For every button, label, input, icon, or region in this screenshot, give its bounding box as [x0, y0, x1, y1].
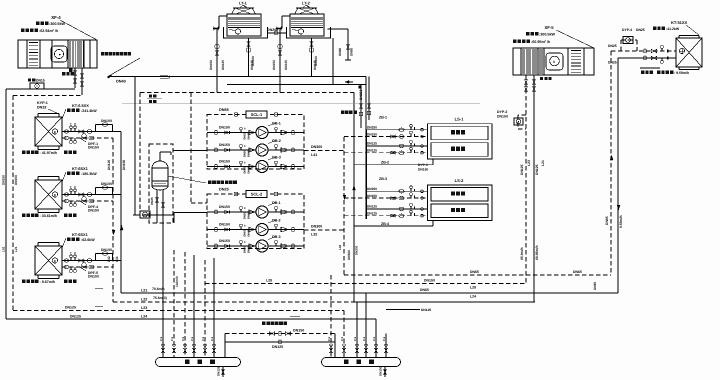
svg-text:DN150: DN150 — [418, 168, 428, 172]
pump DB-1 — [256, 206, 268, 218]
cooling tower LT-2 body with fill — [290, 14, 324, 36]
svg-text:E: E — [54, 259, 56, 263]
svg-text:DN40: DN40 — [248, 246, 251, 253]
svg-text:DN150: DN150 — [379, 366, 383, 376]
collector drain pipe — [222, 367, 224, 378]
svg-text:J: J — [168, 74, 170, 79]
wire short branch DN125 to distributor drop — [386, 309, 420, 311]
svg-text:DN150: DN150 — [219, 126, 230, 130]
svg-text:DN15: DN15 — [36, 79, 45, 83]
vertical dashed chilled return x=344 — [343, 137, 345, 275]
svg-text:DN32: DN32 — [37, 106, 46, 110]
svg-text:P: P — [74, 185, 76, 189]
backwash risers to headers — [224, 334, 226, 358]
pump GB-1 — [256, 127, 268, 139]
pump row GB-2 — [207, 149, 256, 151]
SCL-1 box — [246, 111, 267, 118]
label to air-handling pipe chase with leader arrow — [101, 52, 104, 55]
riser far right supply solid — [617, 58, 619, 293]
svg-text:E: E — [54, 193, 56, 197]
svg-text:DN65: DN65 — [219, 108, 229, 112]
label chilled water flow XF-5 — [513, 40, 517, 44]
svg-text::300.5kW: :300.5kW — [49, 22, 66, 26]
label chilled water flow XF-4 — [21, 29, 25, 33]
wire cooling water supply left edge (solid) — [5, 89, 7, 319]
svg-text:DN50: DN50 — [244, 212, 247, 219]
svg-text:110m/h: 110m/h — [175, 276, 179, 287]
svg-text:DN40: DN40 — [338, 48, 342, 56]
svg-text:DB-1: DB-1 — [272, 201, 281, 205]
svg-text:YS: YS — [82, 194, 86, 197]
svg-text::62.94m: :62.94m — [39, 29, 53, 33]
chiller CH2 bottom flange — [38, 212, 59, 214]
pump GB-3 — [256, 161, 268, 173]
wire dashed from return main down to tank — [139, 93, 141, 213]
svg-text:GB-3: GB-3 — [272, 156, 281, 160]
wire output SCL-1 dashed DN300 — [304, 150, 344, 152]
chiller CH2 return pipe dashed — [62, 200, 113, 202]
pump DB-2 — [256, 224, 268, 236]
bypass line with valves and SCL-2 — [234, 192, 238, 196]
riser turns at bottom right — [525, 96, 527, 284]
svg-text:DN125: DN125 — [520, 164, 524, 175]
svg-text:P-6: P-6 — [202, 336, 205, 341]
AHU XF-4 louver section — [29, 42, 38, 44]
LS-2 connection row 3 DN125 — [366, 208, 428, 210]
svg-text:: 8.67m/h: : 8.67m/h — [40, 280, 56, 284]
svg-text:LT-1: LT-1 — [239, 1, 248, 6]
svg-text:DN65: DN65 — [593, 282, 597, 290]
tower LT-1 supply drop from basin — [248, 38, 250, 77]
svg-text:P-6: P-6 — [383, 336, 386, 341]
svg-text:YS: YS — [82, 260, 86, 263]
cooling tower LT-1 fan deck — [232, 8, 256, 14]
LS-1 bottom connection pipe to riser — [432, 159, 434, 165]
svg-text:DN125: DN125 — [367, 149, 377, 153]
tank leader to auto air vent label — [168, 176, 206, 183]
wire bottom main yE=310.5 dashed from left edge — [13, 310, 344, 312]
svg-text:65.9m/h: 65.9m/h — [520, 247, 524, 260]
svg-text:DN150: DN150 — [293, 329, 304, 333]
AHU XF-5 coil sections — [522, 49, 524, 74]
svg-text:60.95m/h: 60.95m/h — [535, 245, 539, 260]
svg-text:P: P — [74, 122, 76, 126]
AHU XF-5 louvers — [571, 50, 581, 52]
svg-text:KT-6SX1: KT-6SX1 — [72, 166, 89, 171]
svg-text:L31: L31 — [115, 256, 119, 262]
svg-text:P: P — [74, 251, 76, 255]
label chilled water flow CH3 — [22, 280, 26, 284]
svg-text:P-6: P-6 — [341, 336, 344, 341]
svg-text:KT-51XX: KT-51XX — [671, 20, 688, 25]
wire DN200 between tower basins — [268, 32, 287, 34]
chiller CH3 supply pipe with gauges and valves — [62, 260, 121, 262]
backwash upper pipe dashed with valves DN150 — [225, 333, 335, 335]
riser from XF-5 return (dashed) — [525, 96, 527, 283]
svg-text:DN125: DN125 — [535, 164, 539, 175]
wire tank to pump group 1 inlet — [173, 150, 207, 152]
svg-text:DN40: DN40 — [116, 80, 126, 84]
cooling tower LT-2 inlet piping — [282, 15, 290, 17]
svg-text:DN40: DN40 — [248, 150, 251, 157]
svg-text:DN125: DN125 — [284, 60, 288, 70]
riser arrows — [112, 230, 115, 235]
LS-1 condenser inner box — [431, 126, 488, 140]
svg-text:P-6: P-6 — [328, 336, 331, 341]
svg-text:DN100: DN100 — [251, 56, 255, 66]
svg-text:DN150: DN150 — [209, 60, 213, 70]
svg-text:DYP-2: DYP-2 — [497, 110, 507, 114]
svg-text::300.5kW: :300.5kW — [539, 33, 556, 37]
LS-2 bottom connection pipe to riser — [432, 221, 434, 227]
svg-text:L21: L21 — [141, 289, 147, 293]
distributor drop pipes with valves — [330, 275, 332, 358]
wire cooling water return left edge (dashed) — [12, 96, 14, 311]
chiller CH3 top flange — [38, 242, 59, 244]
svg-text:T: T — [70, 122, 72, 126]
svg-text:DN150: DN150 — [2, 175, 6, 185]
svg-text:: 41.97m/h: : 41.97m/h — [40, 151, 58, 155]
pump row GB-1 — [207, 132, 256, 134]
svg-text:DN150: DN150 — [367, 132, 377, 136]
wire inlets to pump group 2 — [191, 202, 207, 204]
SCL-2 box — [246, 191, 267, 198]
vertical solid x=354 — [353, 120, 355, 302]
tank bottom pipes and valves — [156, 190, 158, 215]
label auto air vent device — [208, 181, 212, 185]
cooling tower LT-1 float valve — [235, 29, 240, 34]
bypass line with valves and SCL-1 — [234, 113, 238, 117]
label backwash connection pipe — [262, 322, 266, 326]
svg-text:DN65: DN65 — [573, 270, 582, 274]
svg-text:P-6: P-6 — [191, 336, 194, 341]
pump group SCL-2 enclosure dashed box — [207, 194, 304, 249]
svg-text:DN50: DN50 — [244, 246, 247, 253]
distributor header vessel — [322, 358, 401, 367]
air handling unit XF-4 casing — [18, 40, 97, 68]
svg-text:ZB-1: ZB-1 — [379, 116, 387, 120]
chiller unit CH3 casing — [35, 246, 62, 275]
svg-text:: 9.59m/h: : 9.59m/h — [674, 71, 689, 75]
svg-text:ZB-3: ZB-3 — [379, 177, 387, 181]
wire dashed from tower return down to pump group 2 — [190, 93, 192, 204]
cooling tower LT-2 fan deck — [295, 8, 319, 14]
wire bottom main yF=319 solid from left edge — [6, 318, 376, 320]
svg-text:DN125: DN125 — [107, 160, 111, 170]
svg-text:T: T — [70, 185, 72, 189]
svg-text:DN150: DN150 — [219, 223, 230, 227]
svg-text:DN125: DN125 — [217, 366, 221, 376]
svg-text:DN150: DN150 — [367, 194, 377, 198]
svg-text:LS-1: LS-1 — [455, 117, 464, 122]
cooling tower LT-2 basin — [287, 27, 331, 38]
jog connectors for LS rows — [343, 138, 345, 157]
LS-2 connection row 1 DN250 — [366, 190, 428, 192]
pump DB-3 — [256, 240, 268, 252]
svg-text:L32: L32 — [311, 233, 317, 237]
svg-text:DN25: DN25 — [608, 44, 617, 48]
AHU XF-4 coil sections — [69, 41, 71, 67]
svg-text:DN300: DN300 — [311, 145, 322, 149]
svg-text:DN150: DN150 — [219, 160, 230, 164]
wire bottom main yD=302 dashed — [113, 301, 354, 303]
chiller CH2 supply pipe with gauges and valves — [62, 194, 121, 196]
label chilled water XF-4 — [62, 72, 65, 75]
label chilled water flow CH1 — [22, 151, 26, 155]
tower LT-2 return riser — [279, 29, 281, 93]
svg-text:L21: L21 — [14, 246, 18, 252]
expansion tank enclosure dashed box — [149, 144, 173, 223]
svg-text:DN250: DN250 — [367, 187, 377, 191]
svg-text:P-6: P-6 — [182, 336, 185, 341]
svg-text::62.6kW: :62.6kW — [81, 238, 95, 242]
node main riser turn at x=366 — [365, 77, 367, 131]
backwash lower pipe solid with valve DN125 — [225, 341, 335, 343]
svg-text:L28: L28 — [266, 279, 272, 283]
LS-2 condenser inner box — [431, 188, 488, 202]
AHU XF-4 fan — [51, 46, 67, 62]
flow arrow on main — [345, 81, 353, 83]
LS-1 connection row 2 DN150 — [344, 136, 428, 138]
LS-1 evaporator inner box — [431, 143, 488, 157]
svg-text:: 33.61m/h: : 33.61m/h — [40, 214, 58, 218]
riser far right return dashed — [610, 51, 612, 275]
svg-text:DN300: DN300 — [347, 250, 351, 260]
heat exchanger unit LS-2 outer box — [428, 185, 493, 221]
svg-text:DN50: DN50 — [244, 132, 247, 139]
svg-text:DB-3: DB-3 — [272, 235, 281, 239]
svg-text:DN150: DN150 — [272, 60, 276, 70]
svg-text:GB-2: GB-2 — [272, 139, 281, 143]
svg-text:SCL-1: SCL-1 — [251, 112, 263, 117]
wire from main x=135 down to tank pump — [134, 77, 136, 216]
svg-text:DN125: DN125 — [367, 142, 377, 146]
svg-text:L24: L24 — [141, 315, 147, 319]
svg-text:DN50: DN50 — [244, 166, 247, 173]
pump row DB-3 — [207, 245, 256, 247]
wire cooling water return main (dashed) — [140, 92, 354, 94]
tank outlet down pipes — [156, 215, 158, 223]
svg-text:ZB-2: ZB-2 — [381, 161, 389, 165]
air handling unit XF-5 casing — [513, 48, 594, 75]
AHU XF-5 outlet pipes with valves — [525, 75, 527, 96]
makeup water meter DN15 — [28, 79, 31, 82]
svg-text:DN25: DN25 — [219, 188, 229, 192]
pump group SCL-1 enclosure dashed box — [207, 115, 304, 170]
KT-51 outlet piping solid — [618, 57, 676, 59]
chiller CH1 top flange — [38, 113, 59, 115]
svg-text::60.95m: :60.95m — [531, 40, 545, 44]
svg-text:DYP-3: DYP-3 — [418, 163, 428, 167]
svg-text:XF-4: XF-4 — [51, 15, 61, 20]
svg-text:KT-6.5XX: KT-6.5XX — [72, 103, 89, 108]
svg-text:L42: L42 — [338, 244, 342, 250]
svg-text:L41: L41 — [311, 153, 317, 157]
svg-text:DN150: DN150 — [88, 209, 99, 213]
label chilled water flow KT-51 — [641, 71, 644, 74]
svg-text:DN150: DN150 — [219, 205, 230, 209]
svg-text:DN40: DN40 — [248, 229, 251, 236]
svg-text:KT-6SX1: KT-6SX1 — [72, 232, 89, 237]
svg-text:DN40: DN40 — [248, 132, 251, 139]
LS-1 connection row 3 DN125 — [366, 145, 428, 147]
svg-text:DYP-4: DYP-4 — [622, 28, 632, 32]
svg-text:DN65: DN65 — [420, 288, 429, 292]
wire chilled water supply from XF-4 — [6, 88, 75, 90]
svg-text:DN200: DN200 — [267, 28, 278, 32]
svg-text::180.3kW: :180.3kW — [81, 172, 97, 176]
svg-text:DN50: DN50 — [244, 229, 247, 236]
svg-text:LT-2: LT-2 — [302, 1, 311, 6]
indoor/outdoor boundary line — [122, 103, 480, 105]
collector header vessel — [156, 358, 241, 367]
chiller CH1 return pipe dashed — [62, 137, 113, 139]
svg-text:DN125: DN125 — [367, 205, 377, 209]
svg-text:LS-2: LS-2 — [455, 178, 464, 183]
svg-text:L21: L21 — [541, 160, 545, 166]
tower LT-2 supply drop from basin — [311, 38, 313, 77]
svg-text:DN25: DN25 — [608, 61, 617, 65]
wire cooling water secondary main — [227, 84, 366, 86]
svg-text:DN40: DN40 — [248, 166, 251, 173]
expansion tank vessel — [152, 161, 168, 168]
svg-text:75.6m(3): 75.6m(3) — [153, 296, 167, 300]
KT-51 flanges — [679, 35, 699, 37]
svg-text:GB-1: GB-1 — [272, 122, 281, 126]
svg-text:L23: L23 — [527, 160, 531, 166]
svg-text:DN150: DN150 — [88, 146, 99, 150]
svg-text:P-6: P-6 — [160, 336, 163, 341]
wire bottom main yA=275 dashed to far-right riser — [344, 274, 611, 276]
svg-text:DN50: DN50 — [350, 48, 354, 56]
tower LT-1 return riser — [216, 29, 218, 93]
label cooling capacity XF-5 — [526, 32, 530, 36]
fan coil unit KT-51 casing — [676, 38, 702, 67]
svg-text:T: T — [70, 251, 72, 255]
chiller unit CH1 casing — [35, 117, 62, 146]
cooling tower LT-1 basin — [224, 27, 268, 38]
pump row DB-1 — [207, 211, 256, 213]
chiller CH1 bottom flange — [38, 149, 59, 151]
wire chilled water return from XF-4 (dashed) — [13, 95, 82, 97]
svg-text:DN150: DN150 — [88, 275, 99, 279]
flow arrows on LS verticals — [343, 195, 346, 200]
svg-text:DN25: DN25 — [636, 28, 645, 32]
cooling tower LT-1 body with fill — [227, 14, 261, 36]
svg-text::41.2kW: :41.2kW — [666, 27, 680, 31]
LS-1 connection row 4 DN125 — [344, 152, 428, 154]
AHU XF-4 outlet valves — [74, 68, 76, 88]
svg-text:DN125: DN125 — [65, 306, 76, 310]
wire output SCL-2 dashed DN300 — [304, 229, 344, 231]
pump GB-2 — [256, 144, 268, 156]
svg-text:DN250: DN250 — [367, 126, 377, 130]
cooling tower LT-2 float valve — [298, 29, 303, 34]
svg-text:DN150: DN150 — [424, 279, 435, 283]
svg-text:DN100: DN100 — [314, 56, 318, 66]
distributor drain pipe — [384, 367, 386, 378]
label cooling capacity CH1 — [67, 109, 71, 113]
cooling tower LT-1 inlet piping — [219, 15, 227, 17]
svg-text:P-6: P-6 — [211, 336, 214, 341]
svg-text:L32: L32 — [107, 256, 111, 262]
svg-text:KYP-1: KYP-1 — [37, 101, 48, 105]
svg-text:YS: YS — [82, 131, 86, 134]
svg-text:DN150: DN150 — [122, 160, 126, 170]
svg-text::241.4kW: :241.4kW — [81, 109, 97, 113]
LS-2 connection row 2 DN150 — [344, 197, 428, 199]
svg-text:DN150: DN150 — [219, 239, 230, 243]
label to garrison connection — [341, 111, 345, 115]
svg-text:SCL-2: SCL-2 — [251, 192, 263, 197]
svg-text:P-6: P-6 — [373, 336, 376, 341]
svg-text:DN150: DN150 — [497, 115, 508, 119]
label chilled water flow CH2 — [22, 214, 26, 218]
label cooling capacity XF-4 — [36, 22, 40, 26]
svg-text:DN25: DN25 — [150, 197, 154, 205]
svg-text:6: 6 — [553, 60, 555, 64]
wire bottom main yB=283.5 dashed — [205, 283, 526, 285]
svg-text:DN65: DN65 — [470, 270, 479, 274]
svg-text:DN125: DN125 — [421, 308, 431, 312]
LS-2 connection row 4 DN125 — [344, 215, 428, 217]
chiller CH1 supply pipe with gauges and valves — [62, 131, 121, 133]
label cooling capacity CH2 — [67, 172, 71, 176]
flow arrow marks bottom mains — [95, 288, 103, 290]
svg-text:P-6: P-6 — [354, 336, 357, 341]
AHU XF-5 fan — [546, 53, 563, 70]
pump row GB-3 — [207, 166, 256, 168]
tank makeup pump — [140, 211, 150, 218]
chiller CH3 bottom flange — [38, 278, 59, 280]
svg-text:DN40: DN40 — [248, 212, 251, 219]
svg-text:L28: L28 — [470, 286, 476, 290]
label cooling capacity KT-51 — [653, 27, 656, 30]
wire cooling water main top (solid) — [108, 76, 366, 78]
pump row DB-2 — [207, 229, 256, 231]
main LS distribution vertical — [365, 130, 367, 219]
svg-text:DN50: DN50 — [244, 150, 247, 157]
riser chilled return from chillers x=113 dashed — [112, 138, 114, 302]
svg-text:DN300: DN300 — [311, 225, 322, 229]
KT-51 inlet piping dashed — [611, 50, 676, 52]
LS-1 connection row 1 DN250 — [366, 129, 428, 131]
tank top vent pipe — [159, 152, 161, 161]
tower LT-2 overflow drain pipe — [328, 28, 349, 30]
svg-text:DN150: DN150 — [219, 143, 230, 147]
svg-text:DN300: DN300 — [355, 245, 359, 255]
label outdoor / indoor — [149, 95, 152, 98]
svg-text:DN125: DN125 — [272, 345, 283, 349]
svg-text:L51: L51 — [2, 246, 6, 252]
wire bottom main yC=293 solid — [121, 292, 618, 294]
label cooling capacity CH3 — [67, 238, 71, 242]
riser chilled supply from chillers x=121 — [120, 132, 122, 294]
LS-2 evaporator inner box — [431, 204, 488, 218]
chiller CH3 return pipe dashed — [62, 266, 113, 268]
svg-text:DN125: DN125 — [221, 60, 225, 70]
collector drop pipes with valves — [162, 223, 164, 358]
wires up to main from LS header with valves — [360, 85, 362, 129]
svg-text:L23: L23 — [141, 306, 147, 310]
svg-text:P-6: P-6 — [363, 336, 366, 341]
svg-text:DB-2: DB-2 — [272, 219, 281, 223]
svg-text:XF-5: XF-5 — [544, 25, 554, 30]
chiller CH2 top flange — [38, 176, 59, 178]
svg-text:DN65: DN65 — [605, 216, 609, 225]
svg-text:P-6: P-6 — [171, 336, 174, 341]
svg-text:E: E — [54, 130, 56, 134]
